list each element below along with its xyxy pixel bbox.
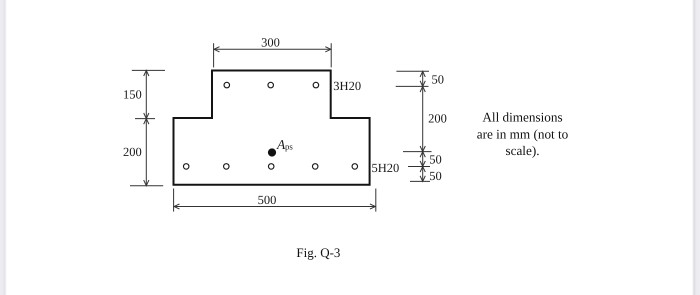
left dimension: middle tick bbox=[135, 118, 155, 120]
top rebar circle 1 bbox=[224, 82, 230, 88]
bottom rebar circle 1 bbox=[183, 164, 189, 170]
svg-text:50: 50 bbox=[429, 169, 442, 183]
top dimension 300: left arrowhead bbox=[214, 47, 220, 52]
svg-text:5H20: 5H20 bbox=[372, 161, 400, 175]
bottom rebar circle 5 bbox=[352, 164, 358, 170]
right dimension: tick at top rebar level bbox=[396, 85, 429, 87]
left dimension: bottom tick bbox=[130, 185, 163, 187]
right dimension: tick at bottom rebar level bbox=[408, 166, 430, 168]
svg-text:500: 500 bbox=[258, 193, 277, 207]
right dimension column: vertical line bbox=[422, 71, 424, 181]
top dimension 300: dimension line bbox=[214, 48, 331, 50]
bottom rebar circle 4 bbox=[312, 164, 318, 170]
right dimension: arrowhead down at top rebar bbox=[420, 81, 425, 87]
top dimension 300: right arrowhead bbox=[325, 47, 331, 52]
page right edge shading bbox=[692, 0, 700, 295]
svg-text:All dimensions: All dimensions bbox=[482, 110, 562, 125]
top rebar circle 2 bbox=[268, 82, 274, 88]
bottom rebar circle 2 bbox=[224, 164, 230, 170]
right dimension: arrowhead down at bottom bbox=[420, 176, 425, 182]
top dimension 300: right extension line bbox=[330, 43, 332, 67]
left dimension column: vertical line bbox=[145, 70, 147, 185]
left dimension: middle up arrowhead bbox=[144, 119, 149, 125]
left dimension: bottom down arrowhead bbox=[144, 180, 149, 186]
right dimension: arrowhead down at Aps level bbox=[420, 146, 425, 152]
right dimension: arrowhead up at flange top bbox=[420, 71, 425, 77]
right dimension: arrowhead up below top rebar bbox=[420, 86, 425, 92]
svg-text:ps: ps bbox=[285, 141, 293, 151]
right dimension: bottom tick bbox=[410, 180, 430, 182]
svg-text:Fig. Q-3: Fig. Q-3 bbox=[296, 245, 340, 260]
svg-text:50: 50 bbox=[429, 153, 442, 167]
bottom dimension 500: left extension line bbox=[173, 189, 175, 212]
right dimension: arrowhead up below bottom rebar bbox=[420, 167, 425, 173]
bottom dimension 500: left arrowhead bbox=[174, 204, 180, 209]
right dimension: tick at Aps level bbox=[403, 151, 432, 153]
svg-text:200: 200 bbox=[428, 112, 447, 126]
right dimension: arrowhead up below Aps level bbox=[420, 152, 425, 158]
bottom dimension 500: right arrowhead bbox=[370, 204, 376, 209]
left dimension: top up arrowhead bbox=[144, 70, 149, 76]
svg-text:3H20: 3H20 bbox=[333, 79, 361, 93]
left dimension: middle down arrowhead bbox=[144, 113, 149, 119]
svg-text:150: 150 bbox=[123, 87, 142, 101]
T-section outline bbox=[174, 71, 370, 185]
top dimension 300: left extension line bbox=[213, 43, 215, 67]
left dimension: top tick bbox=[132, 69, 165, 71]
bottom rebar circle 3 bbox=[268, 164, 274, 170]
page left edge shading bbox=[0, 0, 8, 295]
svg-text:200: 200 bbox=[123, 145, 142, 159]
svg-text:300: 300 bbox=[261, 35, 280, 49]
svg-text:are in mm (not to: are in mm (not to bbox=[477, 126, 569, 141]
right dimension: tick at flange top bbox=[396, 70, 429, 72]
top rebar circle 3 bbox=[313, 82, 319, 88]
bottom dimension 500: right extension line bbox=[375, 189, 377, 212]
right dimension: arrowhead down at bottom rebar bbox=[420, 161, 425, 167]
prestressing tendon Aps dot bbox=[268, 148, 276, 156]
svg-text:50: 50 bbox=[432, 73, 445, 87]
svg-text:scale).: scale). bbox=[505, 143, 539, 158]
bottom dimension 500: dimension line bbox=[174, 206, 375, 208]
